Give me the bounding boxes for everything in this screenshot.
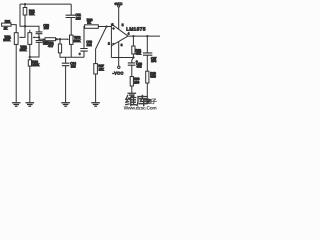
wire C01 drop [70, 4, 72, 15]
capacitor C09 [80, 49, 87, 52]
ground for R03 [26, 103, 35, 107]
op-amp U1 LM1875 [111, 24, 128, 46]
wire R09 to ground [131, 86, 133, 93]
svg-text:150K: 150K [74, 39, 82, 43]
potentiometer W01 [14, 33, 18, 45]
resistor R08 [132, 36, 134, 46]
svg-text:-VCC: -VCC [113, 72, 124, 76]
node dot after R04 [56, 38, 58, 40]
capacitor C06 [132, 58, 134, 63]
svg-text:2: 2 [108, 41, 110, 45]
wire C01 to W03 top [70, 18, 72, 36]
svg-text:2u2: 2u2 [87, 43, 92, 47]
capacitor C02 [36, 32, 43, 34]
ground for R07 [91, 103, 100, 107]
wire W01 wiper from node A [20, 26, 26, 37]
wire C02 to node B [38, 34, 40, 41]
svg-text:104: 104 [151, 59, 156, 63]
node dot C03 return [29, 56, 31, 58]
wire C03 bottom to W02 column [30, 42, 39, 57]
svg-text:+: + [79, 52, 81, 56]
wire C04 to ground [65, 66, 67, 103]
resistor R05 [59, 39, 61, 44]
node dot output C07 [146, 35, 148, 37]
wire R06 right to op-amp pin1 [98, 26, 111, 28]
resistor R03 [28, 60, 31, 66]
svg-text:-: - [113, 42, 114, 46]
wire W01 bottom to ground [15, 44, 17, 102]
wire node B to R04 [39, 38, 45, 40]
svg-text:5K6: 5K6 [150, 75, 156, 79]
resistor R02 [24, 4, 26, 26]
wire R01 to W01 top [11, 25, 16, 33]
wire C07 to R10 [146, 55, 148, 71]
svg-text:4: 4 [128, 32, 130, 36]
wire node A to C02 [25, 26, 39, 32]
wire R07 to ground [95, 74, 97, 102]
wire R05 bottom rail [60, 53, 84, 57]
capacitor C07 [146, 36, 148, 53]
svg-text:100: 100 [134, 80, 139, 84]
resistor R04 [45, 38, 56, 41]
wire W03 bottom [70, 44, 72, 57]
svg-text:150K: 150K [3, 38, 11, 42]
svg-text:220K: 220K [32, 63, 40, 67]
svg-text:150K: 150K [20, 48, 28, 52]
potentiometer W03 [70, 35, 74, 44]
node dot top of R02 [24, 3, 26, 5]
svg-text:LM1875: LM1875 [126, 27, 146, 32]
wire pin2 down [110, 46, 112, 58]
wire C09 bottom to rail [83, 51, 85, 57]
wire W02 wiper from node B [33, 36, 39, 38]
svg-text:47u: 47u [137, 65, 142, 69]
wire pin3 to -VCC [118, 42, 120, 67]
node B dot [38, 36, 40, 38]
svg-text:4K7: 4K7 [48, 44, 54, 48]
capacitor C01 [66, 15, 75, 17]
resistor R07 [94, 64, 98, 74]
wire C06 to R09 [131, 65, 133, 76]
svg-text:5: 5 [122, 23, 124, 27]
wire left loop of R02 [20, 4, 25, 26]
svg-text:223: 223 [76, 17, 81, 21]
svg-text:1K: 1K [4, 27, 9, 31]
power terminal -VCC [118, 66, 120, 68]
wire R04 to W03 wiper [56, 38, 69, 40]
svg-text:电子: 电子 [146, 97, 158, 105]
wire +VCC to pin5 [118, 7, 120, 29]
node dot R08 bottom [132, 54, 134, 58]
ground for R09 [128, 93, 137, 97]
resistor R09 [130, 77, 133, 87]
ground for C04 [61, 103, 70, 107]
node dot output R08 [132, 35, 134, 37]
wire R10 to ground [146, 83, 148, 99]
wire output [128, 35, 160, 37]
node dot at R05 tap [59, 38, 61, 40]
ground for R10 [143, 100, 152, 104]
wire diagonal feedback to R07 [96, 27, 107, 64]
potentiometer W02 [29, 30, 31, 33]
svg-text:3: 3 [121, 43, 123, 47]
resistor R10 [146, 71, 149, 83]
capacitor C04 [65, 57, 67, 63]
wire W02 bottom to R03 [29, 44, 31, 59]
svg-text:103: 103 [71, 64, 76, 68]
node A dot at R02 bottom [24, 25, 26, 27]
wire R06 left to C09 [83, 27, 86, 49]
wire feedback pin2 to R08 bottom [111, 57, 133, 59]
svg-text:47K: 47K [136, 51, 142, 55]
svg-text:103: 103 [44, 26, 49, 30]
svg-text:+: + [113, 26, 115, 30]
wire R03 to ground [29, 66, 31, 102]
node dot pin1 [105, 25, 107, 27]
capacitor C03 [36, 41, 43, 43]
wire top rail from R02 loop to C01 drop [20, 3, 71, 5]
svg-text:Www.dzsc.Com: Www.dzsc.Com [124, 106, 157, 110]
ground for W01 [12, 103, 21, 107]
